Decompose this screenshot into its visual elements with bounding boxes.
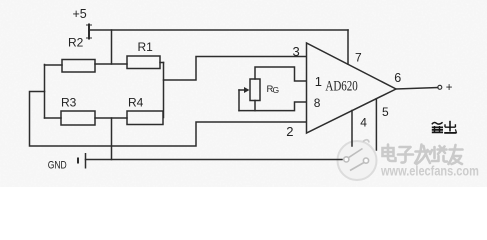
svg-text:3: 3 (293, 44, 300, 59)
svg-text:4: 4 (360, 116, 367, 130)
svg-text:6: 6 (394, 71, 401, 85)
svg-text:AD620: AD620 (325, 78, 357, 94)
svg-text:R2: R2 (68, 36, 84, 50)
svg-text:G: G (273, 85, 280, 95)
svg-text:R4: R4 (128, 96, 144, 110)
svg-text:R3: R3 (61, 96, 77, 110)
svg-text:+5: +5 (73, 7, 87, 21)
svg-text:www.elecfans.com: www.elecfans.com (380, 163, 479, 178)
svg-text:5: 5 (382, 105, 389, 119)
svg-text:2: 2 (286, 124, 293, 139)
svg-text:7: 7 (355, 51, 362, 65)
svg-text:GND: GND (48, 159, 67, 171)
svg-text:1: 1 (315, 74, 322, 89)
svg-text:R1: R1 (138, 40, 154, 54)
svg-text:8: 8 (314, 96, 321, 110)
svg-text:+: + (446, 82, 453, 94)
